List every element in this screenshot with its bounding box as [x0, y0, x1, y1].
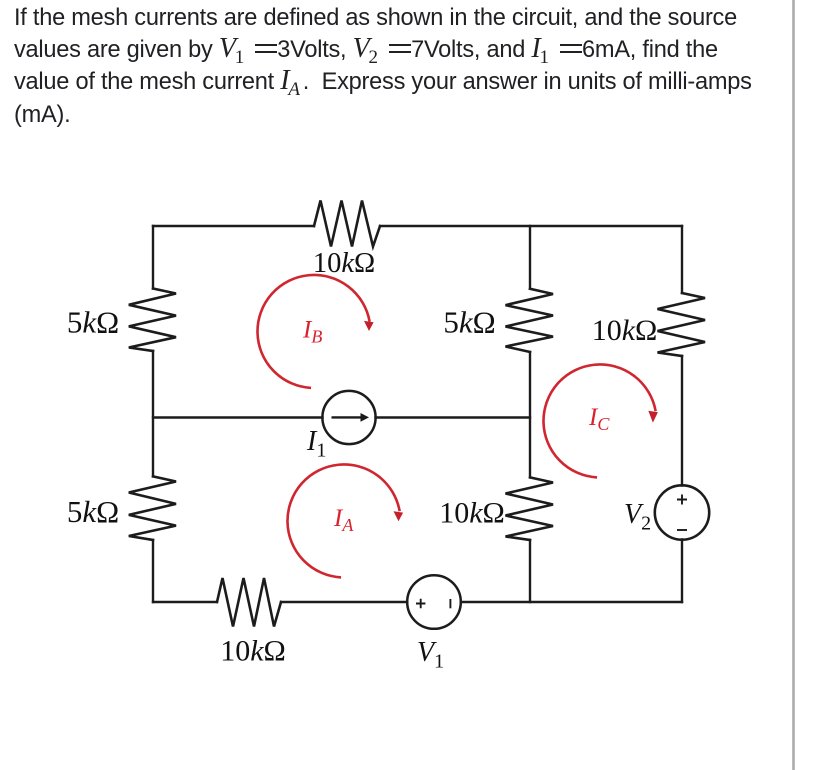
- wire mid-right upper: [529, 226, 531, 289]
- svg-text:V1: V1: [417, 637, 444, 673]
- resistor R3 5kΩ lower-left: [129, 476, 176, 540]
- wire middle-horizontal right of I1: [376, 416, 531, 418]
- svg-text:10kΩ: 10kΩ: [439, 497, 505, 530]
- svg-text:IA: IA: [333, 505, 354, 535]
- voltage source V2 circle: [655, 485, 709, 539]
- resistor R1 10kΩ top: [314, 201, 380, 247]
- svg-text:5kΩ: 5kΩ: [443, 305, 495, 340]
- mesh arrow IA head: [394, 511, 404, 521]
- svg-text:5kΩ: 5kΩ: [67, 494, 119, 529]
- voltage source V1 plus sign: [416, 599, 450, 609]
- mesh arrow IB head: [364, 321, 374, 331]
- wire mid-right lower: [529, 540, 531, 602]
- wire top-right segment: [380, 225, 682, 227]
- problem statement text: [14, 2, 784, 131]
- mesh current arrow IC: [543, 364, 655, 477]
- wire bottom-right segment: [461, 601, 682, 603]
- svg-text:10kΩ: 10kΩ: [592, 314, 658, 347]
- voltage source V1 circle: [407, 575, 461, 629]
- wire middle-horizontal left of I1: [153, 416, 323, 418]
- wire right middle: [681, 356, 683, 486]
- svg-text:10kΩ: 10kΩ: [313, 248, 375, 279]
- resistor R5 10kΩ lower-middle: [506, 477, 554, 540]
- mesh current arrow IA: [287, 464, 399, 577]
- wire bottom-middle segment: [281, 601, 407, 603]
- wire left middle: [152, 351, 154, 476]
- resistor R4 5kΩ middle: [506, 289, 554, 352]
- wire right upper: [681, 226, 683, 293]
- voltage source V2 plus sign: [677, 495, 687, 531]
- svg-text:IB: IB: [302, 317, 322, 347]
- svg-text:10kΩ: 10kΩ: [220, 635, 286, 668]
- resistor R2 5kΩ upper-left: [129, 289, 176, 352]
- panel divider / scrollbar line: [792, 0, 795, 770]
- wire bottom-left segment: [153, 601, 217, 603]
- wire mid-right middle: [529, 352, 531, 477]
- svg-text:V2: V2: [624, 499, 651, 535]
- resistor R6 10kΩ right: [658, 293, 706, 356]
- svg-text:I1: I1: [306, 426, 326, 462]
- svg-text:IC: IC: [588, 404, 610, 434]
- wire left upper: [152, 226, 154, 289]
- wire left lower: [152, 540, 154, 602]
- mesh arrow IC head: [648, 411, 658, 423]
- resistor R7 10kΩ bottom: [217, 578, 281, 627]
- voltage source V1 minus sign (vertical): [449, 599, 451, 608]
- svg-text:5kΩ: 5kΩ: [67, 305, 119, 340]
- wire top-left segment: [153, 225, 314, 227]
- wire right lower: [681, 540, 683, 603]
- current source I1 circle: [322, 391, 375, 444]
- voltage source V2 minus sign: [677, 529, 687, 531]
- current source I1 arrow: [332, 413, 370, 422]
- mesh current arrow IB: [257, 275, 369, 388]
